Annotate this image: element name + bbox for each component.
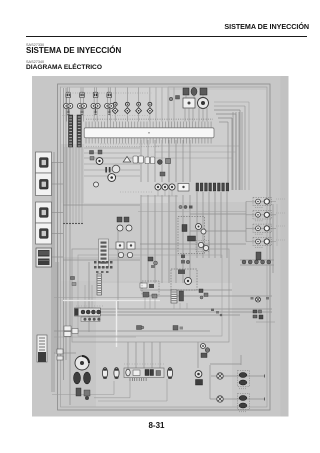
fuse pair 2 bbox=[246, 214, 276, 216]
junction row ticks bbox=[63, 223, 65, 225]
spark plug 3 bbox=[95, 108, 97, 113]
wire coil 4 to ECU bbox=[107, 98, 109, 122]
cluster A squares bbox=[117, 217, 122, 222]
route comp 1 bbox=[137, 326, 142, 330]
wire coil 3 to ECU bbox=[93, 98, 95, 122]
connector bar 2 bbox=[77, 115, 81, 147]
component I2 bbox=[150, 157, 155, 164]
fuel pump bbox=[75, 356, 89, 370]
wire bottom comp drop bbox=[197, 342, 199, 368]
ECU bbox=[84, 128, 214, 138]
wire x277 vertical bbox=[276, 204, 278, 246]
component O bbox=[160, 172, 165, 176]
bits below assembly bbox=[181, 255, 185, 259]
tiny row 3 bbox=[96, 271, 99, 273]
wire left stubs bbox=[52, 162, 64, 164]
capacitor bars bbox=[105, 167, 107, 173]
wire left bundle bbox=[53, 152, 55, 392]
wire sensor feeds bbox=[185, 95, 187, 98]
assembly circle pair bbox=[196, 241, 209, 252]
wire coil 2 feeds bbox=[80, 88, 82, 93]
striped bar B bbox=[171, 290, 177, 303]
assembly circle 1 bbox=[196, 224, 202, 230]
component H bbox=[133, 156, 138, 163]
sensor connector A bbox=[183, 88, 189, 95]
left connector 4 bbox=[36, 223, 52, 244]
right cluster row bbox=[242, 260, 246, 264]
component I bbox=[145, 157, 150, 164]
sensor box D bbox=[183, 98, 195, 108]
wire y337 horizontal bbox=[54, 336, 136, 338]
wire top feeds right bbox=[155, 88, 157, 122]
connector pin row bbox=[196, 183, 199, 191]
wire y290 horizontal bbox=[140, 289, 232, 291]
ignition coil 4 bbox=[105, 103, 110, 108]
ignition coil 2 connector bbox=[80, 92, 85, 98]
wire y331 horizontal bbox=[54, 330, 210, 332]
wire relay drops bbox=[173, 303, 175, 309]
wire y401 bottom run bbox=[98, 400, 167, 402]
tiny row 2 bbox=[94, 266, 97, 269]
left connector 3 bbox=[36, 202, 52, 223]
capsule 1 bbox=[102, 368, 107, 379]
left relay bbox=[36, 248, 52, 267]
sub-panel mid-left bbox=[84, 141, 168, 203]
sensor E bbox=[96, 158, 103, 165]
wire center bundle upper bbox=[140, 140, 142, 182]
white wire vertical bbox=[116, 300, 118, 347]
injector 3 bbox=[136, 108, 142, 114]
coil labels fuzz bbox=[62, 115, 152, 117]
bulb cluster 2 bbox=[238, 394, 250, 410]
small comp y352 bbox=[201, 353, 207, 358]
tilt switch dashed box bbox=[142, 281, 159, 295]
wire y398 bottom run bbox=[94, 397, 130, 399]
pin labels fuzz bottom bbox=[86, 146, 160, 148]
injector 3 connector bbox=[137, 102, 141, 106]
inner frame outer bbox=[58, 84, 271, 410]
small cluster left of assembly bbox=[148, 257, 153, 261]
bulb cluster 1 bbox=[238, 371, 250, 387]
wire fuse bus vertical bbox=[245, 202, 247, 242]
relay box small bbox=[178, 184, 189, 192]
wire mid-right drops bbox=[196, 192, 198, 258]
striped bar C bbox=[179, 291, 184, 301]
wire bottom bus 3 bbox=[96, 314, 240, 316]
wire bottom bus 2 bbox=[92, 311, 272, 313]
wire x241 vertical bbox=[240, 355, 242, 365]
wire x89 vertical bbox=[88, 262, 90, 332]
bottom comp right bbox=[195, 371, 202, 378]
ignition coil 3 connector bbox=[93, 92, 98, 98]
injector 4 bbox=[147, 108, 153, 114]
sub-panel top-right bbox=[170, 90, 266, 202]
wire nested corner 1 bbox=[214, 109, 240, 111]
wire coil 4 feeds bbox=[107, 88, 109, 93]
wire injector 4 feed bbox=[149, 88, 151, 103]
right cluster small comp bbox=[256, 252, 261, 260]
wire nested corner 3 bbox=[218, 117, 232, 119]
sensor connector C bbox=[200, 88, 207, 95]
component J bbox=[157, 160, 162, 165]
wire coil 2 to ECU bbox=[80, 98, 82, 122]
assembly comp 1 bbox=[182, 225, 187, 232]
wire injector 2 feed bbox=[126, 88, 128, 103]
injector 4 connector bbox=[148, 102, 152, 106]
fuse pair 4 bbox=[246, 241, 276, 243]
wire injector 4 to ECU bbox=[149, 114, 151, 122]
mid comp pair bbox=[201, 344, 206, 349]
component H2 bbox=[139, 156, 144, 163]
fuse assembly bbox=[75, 308, 101, 316]
ignition coil 1 connector bbox=[66, 92, 71, 98]
wire nested corner 4 bbox=[219, 121, 228, 123]
fuse pair 3 bbox=[246, 227, 276, 229]
capsule 2 bbox=[114, 368, 119, 379]
injector 1 bbox=[112, 108, 118, 114]
right margin shade band bbox=[281, 76, 289, 417]
relay comp cluster bbox=[253, 310, 257, 313]
injector 2 connector bbox=[126, 102, 130, 106]
connector bar 1 bbox=[69, 115, 73, 147]
assembly dashed box bbox=[178, 217, 205, 254]
ignition coil 3 bbox=[91, 103, 96, 108]
wire nested corner 5 bbox=[214, 105, 245, 107]
small bits above assembly bbox=[179, 205, 182, 208]
sensor row circles bbox=[155, 184, 161, 190]
cluster A circles bbox=[117, 225, 123, 231]
wire injector 1 feed bbox=[114, 88, 116, 103]
ECU pin ticks bottom bbox=[85, 138, 87, 144]
wire cluster horizontals bbox=[84, 147, 140, 149]
white wire horizontal bbox=[63, 300, 160, 302]
wire injector 2 to ECU bbox=[126, 114, 128, 122]
wire x70 vertical bbox=[69, 147, 71, 405]
component E2 bbox=[98, 150, 102, 154]
cluster left of relay bbox=[140, 283, 147, 288]
wire mid horizontal y205 bbox=[63, 204, 140, 206]
wire mid horizontal y244 bbox=[140, 243, 246, 245]
component L bbox=[90, 157, 94, 161]
sub-panel center bbox=[61, 203, 168, 281]
wire right bundle from ECU bbox=[232, 112, 234, 190]
diagnostic connector bbox=[37, 335, 47, 362]
small square pair bbox=[57, 349, 63, 354]
wire coil 1 feeds bbox=[66, 88, 68, 93]
wire y211 horizontal bbox=[138, 211, 246, 213]
wire sensor drops bbox=[184, 108, 186, 122]
switch row bbox=[124, 368, 164, 378]
thermistor triangle bbox=[123, 157, 131, 163]
wire coil 1 to ECU bbox=[66, 98, 68, 122]
wire route rect B bbox=[78, 255, 222, 336]
capsule 3 bbox=[167, 368, 172, 379]
wire mid horizontal y214 bbox=[190, 213, 246, 215]
comps right of striped bars bbox=[199, 289, 203, 293]
injector 2 bbox=[125, 108, 131, 114]
label specks right column bbox=[276, 198, 285, 200]
diagram panel background bbox=[32, 76, 289, 417]
wire injector 1 to ECU bbox=[114, 114, 116, 122]
wire x63 vertical bbox=[63, 88, 65, 380]
cluster B boxes bbox=[116, 242, 124, 249]
label specks bottom bbox=[124, 363, 164, 365]
left connector 2 bbox=[36, 173, 52, 196]
spark plug 2 bbox=[81, 108, 83, 113]
sensor F ring bbox=[112, 165, 120, 173]
wire mid horizontal y231 bbox=[190, 230, 246, 232]
wire corner to x249 bbox=[214, 101, 249, 103]
ECU pin ticks top bbox=[85, 122, 87, 128]
wire y196 horizontal bbox=[141, 195, 178, 197]
bottom small comp 2 bbox=[84, 390, 90, 396]
lamp circle 2 bbox=[217, 396, 223, 402]
tiny comp left of sensors bbox=[169, 97, 173, 101]
assembly circle 2 bbox=[201, 229, 206, 234]
sensor connector B bbox=[191, 88, 197, 96]
specks on bus bbox=[211, 309, 214, 312]
tiny row 1 bbox=[94, 261, 97, 264]
sensor G bbox=[108, 174, 116, 182]
wire bar-right horizontals bbox=[155, 145, 240, 147]
wire y265 right bbox=[240, 264, 274, 266]
wire y364 horizontal bbox=[210, 363, 241, 365]
wire bottom drops bbox=[127, 342, 129, 368]
ignition coil 2 bbox=[77, 103, 82, 108]
label specks mid bbox=[100, 143, 150, 145]
lamp circle 1 bbox=[217, 373, 223, 379]
ignition coil 4 connector bbox=[107, 92, 112, 98]
injector 1 connector bbox=[113, 102, 117, 106]
wire injector 3 feed bbox=[138, 88, 140, 103]
sensor oval 1 bbox=[74, 372, 81, 384]
left-center connector strip bbox=[99, 239, 109, 267]
bottom small comp 1 bbox=[76, 388, 81, 396]
sensor oval 2 bbox=[84, 372, 91, 384]
wire nested corner 2 bbox=[216, 113, 236, 115]
wire y376 lamp line bbox=[211, 375, 265, 377]
wire injector 3 to ECU bbox=[138, 114, 140, 122]
sub-panel top-left bbox=[61, 86, 168, 144]
ignition coil 1 bbox=[64, 103, 69, 108]
spark plug 1 bbox=[67, 108, 69, 113]
component K bbox=[90, 151, 94, 155]
wire bottom bus 1 bbox=[88, 308, 272, 310]
starter relay X circle bbox=[256, 297, 261, 302]
spark plug 4 bbox=[108, 108, 110, 113]
wire x66 vertical bbox=[65, 88, 67, 360]
relay unit dashed box bbox=[171, 269, 197, 290]
pin labels fuzz top bbox=[63, 92, 152, 94]
wire route rect A bbox=[72, 249, 229, 342]
wire lamp box vertical bbox=[209, 365, 211, 399]
component N bbox=[166, 159, 171, 164]
white pair mid bbox=[64, 326, 71, 331]
wire y353 horizontal bbox=[54, 352, 76, 354]
inner frame inner bbox=[61, 87, 268, 407]
wire mid horizontal y260 bbox=[63, 259, 140, 261]
assembly comp 2 bbox=[188, 236, 196, 241]
wire y399 lamp line bbox=[210, 398, 265, 400]
wire connector tails bbox=[63, 147, 65, 223]
route comp 2 bbox=[173, 326, 178, 331]
tiny marks x72 bbox=[71, 277, 75, 280]
cluster C circles bbox=[118, 252, 123, 257]
wire coil 3 feeds bbox=[94, 88, 96, 93]
wire x272 long vertical bbox=[272, 204, 274, 273]
crankshaft position sensor bbox=[198, 98, 209, 109]
wire center bundle lower bbox=[140, 195, 142, 283]
fuse pair 1 bbox=[246, 201, 276, 203]
wire x118 vertical bbox=[117, 231, 119, 309]
left connector 1 bbox=[36, 152, 52, 173]
wire y395 bottom run bbox=[52, 394, 114, 396]
component M bbox=[94, 182, 99, 187]
wire y260 right bbox=[240, 259, 274, 261]
sub-panel bottom bbox=[96, 283, 232, 407]
striped bar left bbox=[97, 274, 102, 295]
wire y296 horizontal bbox=[54, 297, 148, 299]
